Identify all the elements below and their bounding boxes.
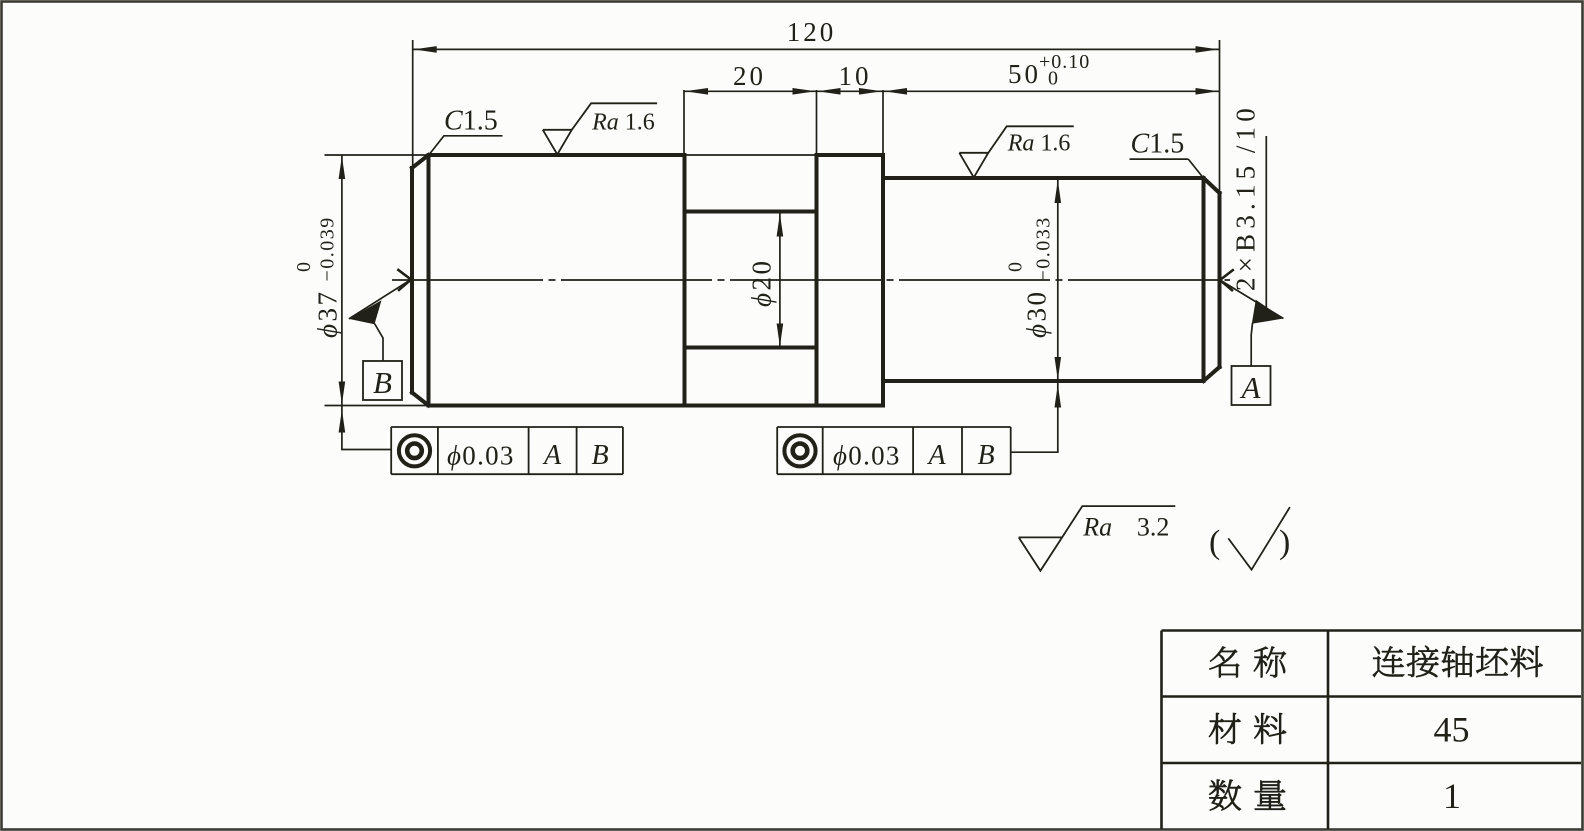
svg-text:1: 1 <box>1443 776 1461 816</box>
datum B solid triangle <box>349 300 382 324</box>
arrowheads of phi30 dim <box>1055 180 1062 203</box>
svg-text:ϕ30: ϕ30 <box>1022 290 1052 338</box>
shaft: phi37 cylinder top/bottom <box>429 153 685 157</box>
shaft: phi20 neck top/bottom <box>685 212 817 348</box>
arrowheads of 20 dim <box>685 88 708 95</box>
shaft: left chamfer edges C1.5 <box>412 155 429 406</box>
datum A solid triangle <box>1252 300 1284 324</box>
extension line left end (for 120 dim) <box>412 40 414 166</box>
svg-text:C1.5: C1.5 <box>444 106 498 137</box>
surface roughness Ra 1.6 on phi37 <box>543 103 657 154</box>
svg-text:ϕ0.03: ϕ0.03 <box>447 441 515 471</box>
svg-text:45: 45 <box>1434 710 1470 750</box>
surface roughness Ra 1.6 on phi30 <box>959 126 1073 177</box>
center hole arrow left (open arrowhead at axis/end-face) <box>397 269 411 291</box>
shaft: phi30 cylinder top/bottom <box>883 178 1204 381</box>
concentricity tolerance frame (phi37 vs A B) <box>391 427 623 474</box>
arrowheads of phi20 dim <box>777 214 784 237</box>
center hole arrow right (open arrowhead at axis/end-face) <box>1220 269 1234 291</box>
title: part name <box>1373 646 1404 677</box>
svg-text:10: 10 <box>839 61 872 91</box>
extension line at phi37/neck face (for 20 dim) <box>683 90 685 154</box>
shaft: flange left face <box>815 155 819 406</box>
shaft: phi37 right shoulder face <box>683 155 687 406</box>
svg-text:+0.10: +0.10 <box>1039 51 1090 73</box>
datum A connector to box <box>1251 323 1252 366</box>
centerline (axis) <box>392 279 1230 281</box>
concentricity tolerance frame (phi30 vs A B) <box>777 427 1011 474</box>
svg-text:Ra 3.2: Ra 3.2 <box>1082 513 1169 542</box>
shaft: right chamfer edges C1.5 <box>1204 178 1220 381</box>
phi30 dimension line + leader to concentricity frame <box>1011 179 1058 452</box>
svg-text:ϕ0.03: ϕ0.03 <box>833 441 901 471</box>
extension line linking phi37 and flange top corners <box>685 154 817 156</box>
center hole callout leader 2xB3.15/10 <box>1265 136 1267 308</box>
svg-text:B: B <box>977 440 994 471</box>
shaft: left end face (phi37 chamfered end) <box>412 155 1220 406</box>
svg-text:0: 0 <box>1005 262 1027 272</box>
datum A box <box>1232 366 1271 405</box>
title block table <box>1162 631 1582 830</box>
surface roughness Ra 3.2 (general) <box>1019 506 1176 571</box>
svg-text:B: B <box>373 365 392 400</box>
title: row labels <box>1209 647 1239 678</box>
arrowheads of 120 dim <box>414 46 437 53</box>
arrowheads of phi37 dim <box>339 156 346 179</box>
dimension line 20-10-50 <box>684 90 1220 92</box>
phi20 dimension line <box>779 213 781 348</box>
svg-text:A: A <box>542 440 562 471</box>
svg-text:(: ( <box>1209 524 1220 561</box>
phi37 extension lines top/bottom <box>325 155 429 406</box>
svg-text:ϕ37: ϕ37 <box>313 290 343 338</box>
arrowheads of 50 dim <box>884 88 907 95</box>
extension line right end (for 120/50 dims) <box>1219 40 1221 192</box>
svg-text:0: 0 <box>1048 68 1059 90</box>
svg-text:120: 120 <box>787 17 837 47</box>
datum B box <box>363 361 402 400</box>
shaft: flange right face <box>881 155 885 406</box>
shaft: flange top <box>817 153 884 157</box>
svg-text:A: A <box>926 440 946 471</box>
svg-text:): ) <box>1279 524 1290 561</box>
shaft: right end face <box>1218 193 1222 367</box>
svg-text:20: 20 <box>733 61 766 91</box>
svg-text:−0.039: −0.039 <box>317 216 339 281</box>
svg-text:Ra 1.6: Ra 1.6 <box>591 109 655 135</box>
extension line at neck/flange face (for 20/10 dims) <box>816 90 818 154</box>
svg-text:B: B <box>591 440 608 471</box>
svg-text:2×B3.15 /10: 2×B3.15 /10 <box>1231 103 1261 291</box>
datum B connector to box <box>375 324 384 362</box>
phi37 dimension line + leader to concentricity frame <box>342 155 391 450</box>
svg-text:Ra 1.6: Ra 1.6 <box>1007 130 1071 156</box>
svg-text:0: 0 <box>293 262 315 272</box>
arrowheads of 10 dim <box>818 88 841 95</box>
datum A leader line <box>1220 280 1283 319</box>
svg-text:C1.5: C1.5 <box>1131 129 1185 160</box>
svg-text:50: 50 <box>1008 59 1041 89</box>
shaft: chamfer plane line left <box>427 155 431 406</box>
svg-text:−0.033: −0.033 <box>1033 216 1055 281</box>
dimension line 120 <box>413 48 1220 50</box>
extension line at flange/phi30 face (for 10/50 dims) <box>882 90 884 155</box>
svg-text:A: A <box>1240 370 1262 405</box>
shaft: right chamfer plane line <box>1202 178 1206 381</box>
svg-text:ϕ20: ϕ20 <box>747 259 777 307</box>
datum B leader line <box>349 280 411 319</box>
